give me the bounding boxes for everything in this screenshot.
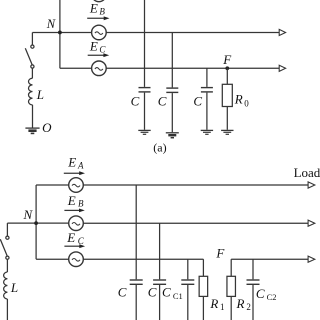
svg-text:R: R [234,91,243,106]
source E_B (b) [69,216,84,231]
source E_B (a) [92,25,107,40]
wire: left bus (b) x=36.1 [35,185,37,259]
svg-text:A: A [77,161,84,171]
wire: phase-B row (b) [7,222,308,224]
label L (a) [36,87,44,102]
label N (a) [46,17,56,31]
svg-text:2: 2 [246,302,251,312]
capacitor C_C2 (b) x=253 [247,259,260,320]
label E_B (b) [67,193,84,208]
wire: phase-B row (a) [32,31,279,33]
source E_C (b) [69,252,84,267]
svg-text:C1: C1 [173,291,183,301]
wire: phase-C row right part (b), from R2 to output arrow [231,258,308,260]
inductor L (a) [29,78,33,105]
label R2 (b) [236,296,251,312]
svg-text:B: B [99,6,105,16]
svg-text:Load: Load [294,165,320,180]
ground O (a) [25,128,39,133]
inductor L (b) [4,272,8,299]
arrowhead output phase A (b) [308,182,315,188]
svg-text:O: O [42,120,52,135]
wire: phase-C row (a) [60,67,279,69]
arrow for E_C (a) [88,53,110,57]
svg-text:1: 1 [220,302,225,312]
label E_C (a) [89,38,107,54]
node N dot (b) [34,221,38,225]
svg-text:C: C [158,93,167,108]
label E_C (b) [66,230,84,246]
arrowhead output phase C (b) [308,256,315,262]
label L (b) [10,280,18,295]
svg-text:N: N [23,207,34,222]
label O (a) [42,120,52,135]
label R0 (a) [234,91,249,108]
svg-text:E: E [66,230,75,245]
svg-text:E: E [89,38,98,53]
svg-text:E: E [67,155,76,170]
svg-text:N: N [46,17,56,31]
resistor R1 (b) [199,259,208,320]
label Load (b) [294,165,320,180]
arrow for E_B (b) [64,209,84,213]
svg-text:C: C [256,286,265,301]
label C (cap2 a) [158,93,167,108]
source E_A (b) [69,178,84,193]
label C_C2 (b) [256,286,277,302]
switch (b) [0,223,9,272]
label R1 (b) [209,296,224,312]
label C (cap2 b) [148,284,157,299]
wire: below inductor to bottom edge (b) [6,299,8,320]
node N dot (a) [58,31,62,35]
svg-text:E: E [89,1,98,16]
svg-text:R: R [209,296,218,311]
svg-text:B: B [78,198,84,208]
svg-text:C: C [99,44,106,54]
wire: phase-A row (b) [36,184,308,186]
label E_B (a) [89,1,106,17]
svg-text:E: E [67,193,76,208]
svg-text:C: C [148,284,157,299]
wire: left bus (a) x=59.9 from top edge to phase-C row [59,0,61,68]
svg-text:0: 0 [244,98,249,108]
arrowhead output phase B (a) [279,29,285,35]
wire: phase-C row left part (b), ends turning down into R1 [36,258,203,260]
capacitor C phase-A branch (a) x=144.5 [139,0,151,130]
ground for cap2 (a) [166,133,179,138]
capacitor C phase-B branch (a) x=172.3 [166,32,178,132]
arrow for E_C (b) [64,244,85,248]
svg-text:(a): (a) [153,141,166,155]
label F (a) [222,52,232,67]
resistor R0 (a) [222,68,232,130]
svg-text:C: C [193,93,202,108]
arrow for E_B (a) [87,16,109,20]
capacitor C phase-C branch (a) x=206.9 [201,68,213,130]
switch (a) [25,32,34,78]
wire: inductor to ground O (a) [32,105,34,128]
label C_C1 (b) [162,284,183,301]
source E_C (a) [92,61,107,76]
capacitor C phase-A branch (b) x=136.2 [130,185,143,320]
capacitor C_C1 (b) x=187.8 [181,259,194,320]
svg-text:C: C [118,284,127,299]
svg-text:F: F [222,52,232,67]
svg-text:R: R [236,296,245,311]
svg-text:F: F [215,246,225,261]
arrowhead output phase B (b) [308,220,315,226]
source E_A (a), circle cut off at top edge [92,0,107,2]
label C (cap3 a) [193,93,202,108]
caption (a) [153,141,166,155]
svg-text:C: C [78,236,85,246]
label E_A (b) [67,155,84,171]
svg-text:C: C [131,93,140,108]
resistor R2 (b) [227,259,236,320]
label C (cap1 b) [118,284,127,299]
svg-text:C: C [162,284,171,299]
node F dot (a) [225,66,229,70]
ground for cap3 (a) [201,130,213,134]
svg-text:C2: C2 [267,292,277,302]
ground for cap1 (a) [138,130,150,134]
label F (b) [215,246,225,261]
svg-text:L: L [36,87,44,102]
label N (b) [23,207,34,222]
capacitor C phase-B branch (b) x=159.6 [153,223,166,320]
svg-text:L: L [10,280,18,295]
arrowhead output phase C (a) [279,65,285,71]
ground for R0 (a) [221,130,233,134]
arrow for E_A (b) [64,171,85,175]
label C (cap1 a) [131,93,140,108]
